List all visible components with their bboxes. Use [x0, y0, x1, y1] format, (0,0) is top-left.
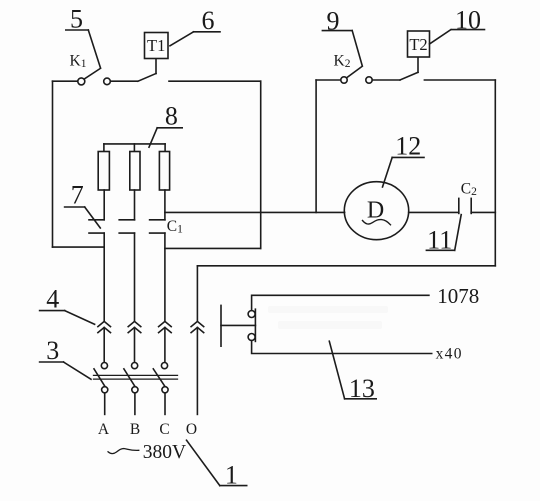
- svg-text:T1: T1: [147, 36, 165, 55]
- leader label 7: [65, 206, 85, 208]
- capacitor C1-a bottom plate: [89, 232, 104, 234]
- capacitor C1-b bottom plate: [119, 232, 134, 234]
- svg-text:9: 9: [327, 7, 340, 36]
- knife switch QS bottom circle B: [132, 387, 138, 393]
- svg-text:A: A: [98, 421, 110, 438]
- connector chevrons neutral O: [191, 321, 204, 326]
- motor squiggle: [363, 220, 391, 225]
- resistor R-a: [98, 152, 109, 191]
- contact circle lower: [248, 334, 255, 341]
- wire phase C chevron gap lower: [164, 328, 166, 363]
- wire left-rect left edge: [52, 81, 54, 247]
- wire bus stub 2: [133, 144, 135, 152]
- knife switch QS top circle B: [132, 363, 138, 369]
- knife switch QS blade B: [124, 369, 135, 387]
- wire leg3 bottom branch: [165, 247, 261, 249]
- svg-text:5: 5: [70, 5, 83, 34]
- leader label 3: [40, 361, 64, 363]
- wire resistor top bus: [104, 143, 165, 145]
- wire top left to K1: [53, 80, 78, 82]
- vibrator reed bar: [220, 305, 222, 346]
- connector chevrons phase C: [159, 321, 172, 326]
- svg-text:7: 7: [71, 180, 84, 209]
- switch K1 blade: [84, 68, 100, 79]
- wire T2 stub: [417, 57, 419, 72]
- svg-text:13: 13: [349, 374, 375, 403]
- wire leg1 capacitor down to switch: [103, 233, 105, 321]
- contact circle upper: [248, 311, 255, 318]
- svg-text:4: 4: [46, 285, 59, 314]
- svg-text:3: 3: [46, 336, 59, 365]
- resistor R-c: [159, 152, 169, 191]
- wire T1 stub: [155, 59, 157, 74]
- svg-text:O: O: [186, 421, 197, 438]
- svg-text:10: 10: [455, 6, 481, 35]
- leader label 4: [40, 310, 65, 312]
- wire motor feed from phase C: [165, 211, 345, 213]
- knife switch QS top circle A: [101, 363, 107, 369]
- wire terminal C: [164, 393, 166, 415]
- switch K1 terminal circle 1: [78, 78, 85, 85]
- wire leg3 resistor to capacitor: [164, 190, 166, 220]
- wire terminal B: [134, 393, 136, 415]
- svg-text:1078: 1078: [437, 284, 479, 308]
- wire lower contact dropper: [252, 341, 432, 354]
- wire top right K2 segment: [316, 79, 341, 81]
- connector chevrons phase B: [128, 321, 141, 326]
- wire right-loop bottom: [197, 265, 495, 267]
- relay T1 box: [145, 33, 169, 59]
- wire phase B chevron gap lower: [134, 328, 136, 363]
- wire terminal A: [104, 393, 106, 415]
- leader label 12: [392, 156, 424, 158]
- wire left-rect right edge: [260, 81, 262, 248]
- leader label 9: [322, 30, 352, 32]
- knife switch QS bottom circle A: [102, 387, 108, 393]
- svg-text:C: C: [159, 421, 169, 438]
- wire leg3 capacitor down to switch: [164, 233, 166, 321]
- wire C2 to right edge: [471, 211, 495, 213]
- contact blade of T1: [138, 74, 156, 82]
- svg-text:12: 12: [395, 131, 421, 160]
- leader label 13: [345, 398, 377, 400]
- capacitor C1-b top plate: [119, 219, 134, 221]
- resistor R-b: [130, 152, 140, 191]
- svg-text:B: B: [130, 421, 140, 438]
- leader label 8: [157, 127, 182, 129]
- wire right-loop left edge: [315, 80, 317, 212]
- svg-text:1: 1: [225, 461, 238, 490]
- switch K2 blade: [347, 66, 363, 77]
- svg-text:D: D: [367, 198, 384, 224]
- switch K2 terminal circle 1: [341, 77, 347, 83]
- wire T2 contact to right corner: [424, 79, 495, 81]
- wire leg2 capacitor down to switch: [134, 233, 136, 321]
- svg-text:8: 8: [165, 101, 178, 130]
- wire bus stub 1: [103, 144, 105, 152]
- capacitor C1-c bottom plate: [150, 232, 165, 234]
- wire neutral O lower: [196, 328, 198, 415]
- 380V squiggle: [108, 449, 139, 454]
- capacitor C1-c top plate: [150, 219, 165, 221]
- connector chevrons phase A: [98, 321, 111, 326]
- wire left-rect bottom to phase A: [53, 246, 104, 248]
- capacitor C1-a top plate: [89, 219, 104, 221]
- wire motor right to C2: [409, 211, 459, 213]
- wire phase A chevron gap lower: [103, 328, 105, 363]
- wire K2 to T2 contact: [372, 79, 400, 81]
- svg-text:x40: x40: [436, 345, 463, 362]
- switch K2 terminal circle 2: [366, 77, 372, 83]
- wire neutral O upper: [196, 266, 198, 321]
- knife switch QS blade A: [94, 369, 105, 387]
- leader label 10: [452, 29, 485, 31]
- svg-text:380V: 380V: [143, 442, 186, 463]
- wire leg2 resistor to capacitor: [134, 190, 136, 220]
- knife switch QS bottom circle C: [162, 387, 168, 393]
- vibrator contact bar: [254, 309, 256, 341]
- wire leg1 resistor to capacitor: [103, 190, 105, 220]
- wire T1 contact to right corner: [169, 80, 261, 82]
- leader label 5: [66, 29, 89, 31]
- knife switch QS top circle C: [161, 363, 167, 369]
- leader label 6: [194, 31, 221, 33]
- capacitor C2 left plate: [458, 198, 460, 213]
- wire reed connector: [221, 324, 255, 326]
- wire upper contact riser: [252, 295, 429, 310]
- svg-text:11: 11: [427, 226, 452, 255]
- wire right-loop right edge: [494, 80, 496, 266]
- knife switch QS linkage bar: [94, 374, 178, 376]
- motor M circle: [344, 182, 408, 240]
- leader label 11: [426, 249, 454, 251]
- faint watermark: [268, 306, 388, 329]
- relay T2 box: [408, 31, 430, 57]
- wire K1 to T1 contact: [110, 80, 137, 82]
- switch K1 terminal circle 2: [104, 78, 111, 85]
- capacitor C2 right plate: [470, 198, 472, 213]
- wire bus stub 3: [164, 144, 166, 152]
- contact blade of T2: [400, 72, 418, 80]
- knife switch QS blade C: [153, 369, 165, 387]
- leader label 1: [220, 485, 247, 487]
- svg-text:T2: T2: [409, 35, 427, 54]
- svg-text:6: 6: [202, 6, 215, 35]
